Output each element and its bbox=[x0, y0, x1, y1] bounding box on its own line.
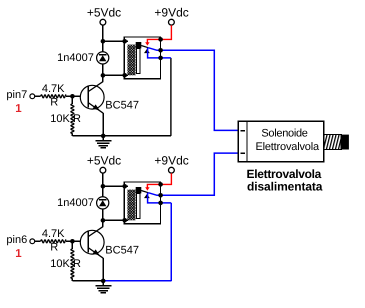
resistor R2b letter R bbox=[73, 258, 81, 270]
svg-text:BC547: BC547 bbox=[105, 245, 139, 257]
caption Elettrovalvola disalimentata bbox=[247, 167, 323, 193]
blue wire relay K2 contact to NC stub bbox=[148, 193, 172, 203]
wire base node to resistor R1b bbox=[71, 96, 73, 104]
wire base node to resistor R2b bbox=[71, 241, 73, 249]
power label +5Vdc (circuit 2) bbox=[87, 154, 121, 168]
transistor Q1 base bar bbox=[87, 87, 89, 108]
solenoid plunger (hatched) bbox=[324, 135, 341, 150]
ground symbol (circuit 2) bbox=[95, 281, 111, 293]
red marker 1 (pin6) bbox=[15, 248, 22, 260]
wire Q2 emitter to ground rail bbox=[102, 258, 104, 281]
diode D1 1n4007 (flyback) bbox=[97, 41, 109, 75]
svg-text:+9Vdc: +9Vdc bbox=[154, 154, 188, 168]
solenoid label Elettrovalvola bbox=[255, 141, 320, 153]
resistor R2a 4.7K label bbox=[42, 228, 65, 240]
relay K1 moving contact lever bbox=[141, 46, 148, 48]
transistor Q2 circle bbox=[80, 230, 104, 254]
svg-text:R: R bbox=[50, 97, 58, 109]
relay K2 body outline bbox=[124, 182, 160, 224]
junction relay K1 common pin bbox=[158, 37, 163, 42]
svg-text:R: R bbox=[73, 113, 81, 125]
relay K1 fixed contact (triangle) bbox=[144, 49, 150, 53]
+9Vdc terminal circle (circuit 1) bbox=[169, 19, 175, 25]
blue wire relay K2 NC return (down) bbox=[170, 203, 172, 281]
svg-text:1n4007: 1n4007 bbox=[57, 52, 94, 64]
transistor Q1 circle bbox=[80, 85, 104, 109]
solenoid terminal tick 2 bbox=[241, 152, 245, 154]
transistor Q1 emitter arrow bbox=[93, 104, 100, 110]
blue wire relay K1 NO contact to solenoid (node S1) bbox=[148, 48, 239, 131]
junction relay K2 coil bottom pin bbox=[122, 218, 127, 223]
+5Vdc terminal circle (circuit 2) bbox=[100, 167, 106, 173]
junction base node (circuit 1) bbox=[70, 94, 75, 99]
+5Vdc terminal circle (circuit 1) bbox=[100, 19, 106, 25]
red marker 1 (pin7) bbox=[15, 103, 22, 115]
transistor Q2 emitter arrow bbox=[93, 249, 100, 255]
transistor Q1 emitter bbox=[88, 103, 103, 114]
junction node A1 bbox=[101, 39, 106, 44]
svg-text:10K: 10K bbox=[50, 258, 70, 270]
svg-text:R: R bbox=[73, 258, 81, 270]
solenoid plunger tip (solid) bbox=[341, 135, 349, 150]
ground rail left part (circuit 2) bbox=[72, 280, 103, 282]
resistor R2a (4.7K) zigzag bbox=[41, 240, 67, 243]
resistor R2b (10K) zigzag bbox=[71, 249, 74, 279]
wire Q1 emitter to ground rail bbox=[102, 113, 104, 136]
relay K2 fixed contact (triangle) bbox=[144, 194, 150, 198]
wire node B2 to Q2 collector bbox=[102, 220, 104, 226]
junction ground node (circuit 2) bbox=[101, 279, 106, 284]
diode D1 label 1n4007 bbox=[57, 52, 94, 64]
junction relay K1 NO pin bbox=[158, 48, 163, 53]
wire relay K1 NC return (black, down to ground rail) bbox=[170, 58, 172, 136]
input terminal circle pin7 bbox=[30, 94, 35, 99]
blue wire solenoid return to relay K2 contact (node S2) bbox=[148, 153, 239, 195]
solenoid label Solenoide bbox=[261, 128, 307, 140]
svg-text:+5Vdc: +5Vdc bbox=[87, 6, 121, 20]
input label pin7 bbox=[6, 89, 27, 101]
relay K1 body outline bbox=[124, 37, 160, 79]
input label pin6 bbox=[6, 234, 27, 246]
resistor R1b 10K label bbox=[50, 113, 70, 125]
transistor Q2 emitter bbox=[88, 248, 103, 259]
diode D2 label 1n4007 bbox=[57, 197, 94, 209]
ground symbol (circuit 1) bbox=[95, 136, 111, 148]
diode D2 1n4007 (flyback) bbox=[97, 186, 109, 220]
transistor Q2 collector bbox=[88, 226, 103, 236]
solenoid terminal divider bbox=[246, 121, 248, 161]
svg-text:1: 1 bbox=[15, 103, 22, 115]
blue wire relay K1 contact to NC stub bbox=[148, 48, 171, 58]
resistor R2b 10K label bbox=[50, 258, 70, 270]
junction relay K1 coil top pin bbox=[122, 39, 127, 44]
wire node B2 to relay coil bottom bbox=[103, 219, 125, 221]
svg-text:10K: 10K bbox=[50, 113, 70, 125]
svg-text:BC547: BC547 bbox=[105, 100, 139, 112]
solenoid terminal tick 1 bbox=[241, 130, 245, 132]
wire R2b to ground rail bbox=[71, 279, 73, 281]
junction relay K2 coil top pin bbox=[122, 184, 127, 189]
red arrowhead onto relay K2 contact bbox=[145, 187, 149, 190]
wire node B1 to relay coil bottom bbox=[103, 74, 125, 76]
relay K2 coil (hatched) bbox=[127, 190, 135, 221]
power label +5Vdc (circuit 1) bbox=[87, 6, 121, 20]
wire +5V terminal to node A2 bbox=[102, 173, 104, 186]
resistor R1a (4.7K) zigzag bbox=[41, 95, 67, 98]
relay K2 coil lead stubs bbox=[125, 186, 129, 220]
junction relay K1 NC pin bbox=[158, 56, 163, 61]
junction node B2 bbox=[101, 218, 106, 223]
red wire +9V to relay K1 common contact bbox=[147, 25, 171, 43]
svg-text:4.7K: 4.7K bbox=[42, 83, 65, 95]
resistor R1b (10K) zigzag bbox=[71, 104, 74, 134]
svg-text:pin6: pin6 bbox=[6, 234, 27, 246]
svg-text:1: 1 bbox=[15, 248, 22, 260]
junction node A2 bbox=[101, 184, 106, 189]
wire node A1 to relay coil top bbox=[103, 40, 125, 42]
svg-text:pin7: pin7 bbox=[6, 89, 27, 101]
wire R1a to base node bbox=[66, 95, 80, 97]
relay K1 armature core bbox=[136, 42, 142, 73]
junction base node (circuit 2) bbox=[70, 239, 75, 244]
blue wire ground rail right part (circuit 2) bbox=[103, 280, 171, 282]
ground rail (circuit 1) bbox=[72, 135, 170, 137]
relay K1 coil lead stubs bbox=[125, 41, 129, 75]
resistor R1a letter R bbox=[50, 97, 58, 109]
power label +9Vdc (circuit 2) bbox=[154, 154, 188, 168]
svg-text:disalimentata: disalimentata bbox=[247, 180, 323, 194]
relay K2 armature core bbox=[136, 187, 142, 218]
wire node B1 to Q1 collector bbox=[102, 75, 104, 81]
svg-text:1n4007: 1n4007 bbox=[57, 197, 94, 209]
wire pin6 to resistor R2a bbox=[35, 240, 41, 242]
svg-text:+5Vdc: +5Vdc bbox=[87, 154, 121, 168]
solenoid body outline bbox=[238, 121, 324, 161]
power label +9Vdc (circuit 1) bbox=[154, 6, 188, 20]
+9Vdc terminal circle (circuit 2) bbox=[169, 167, 175, 173]
svg-text:4.7K: 4.7K bbox=[42, 228, 65, 240]
transistor Q2 BC547 label bbox=[105, 245, 139, 257]
svg-text:Solenoide: Solenoide bbox=[261, 128, 307, 140]
transistor Q1 BC547 label bbox=[105, 100, 139, 112]
red arrowhead onto relay K1 contact bbox=[145, 42, 149, 45]
svg-text:R: R bbox=[50, 242, 58, 254]
wire R2a to base node bbox=[66, 240, 80, 242]
resistor R1b letter R bbox=[73, 113, 81, 125]
wire R1b to ground rail bbox=[71, 134, 73, 136]
transistor Q2 base bar bbox=[87, 232, 89, 253]
relay K2 moving contact lever bbox=[141, 191, 148, 193]
wire +5V terminal to node A1 bbox=[102, 25, 104, 41]
transistor Q1 collector bbox=[88, 81, 103, 91]
junction relay K2 NO pin bbox=[158, 193, 163, 198]
svg-text:Elettrovalvola: Elettrovalvola bbox=[255, 141, 320, 153]
svg-text:+9Vdc: +9Vdc bbox=[154, 6, 188, 20]
red wire +9V to relay K2 common contact bbox=[147, 173, 171, 188]
wire pin7 to resistor R1a bbox=[35, 95, 41, 97]
junction relay K1 coil bottom pin bbox=[122, 73, 127, 78]
wire node A2 to relay coil top bbox=[103, 185, 125, 187]
resistor R2a letter R bbox=[50, 242, 58, 254]
resistor R1a 4.7K label bbox=[42, 83, 65, 95]
junction node B1 bbox=[101, 73, 106, 78]
junction relay K2 NC pin bbox=[158, 201, 163, 206]
input terminal circle pin6 bbox=[30, 239, 35, 244]
junction ground node (circuit 1) bbox=[101, 134, 106, 139]
relay K1 coil (hatched) bbox=[127, 45, 135, 76]
junction relay K2 common pin bbox=[158, 182, 163, 187]
